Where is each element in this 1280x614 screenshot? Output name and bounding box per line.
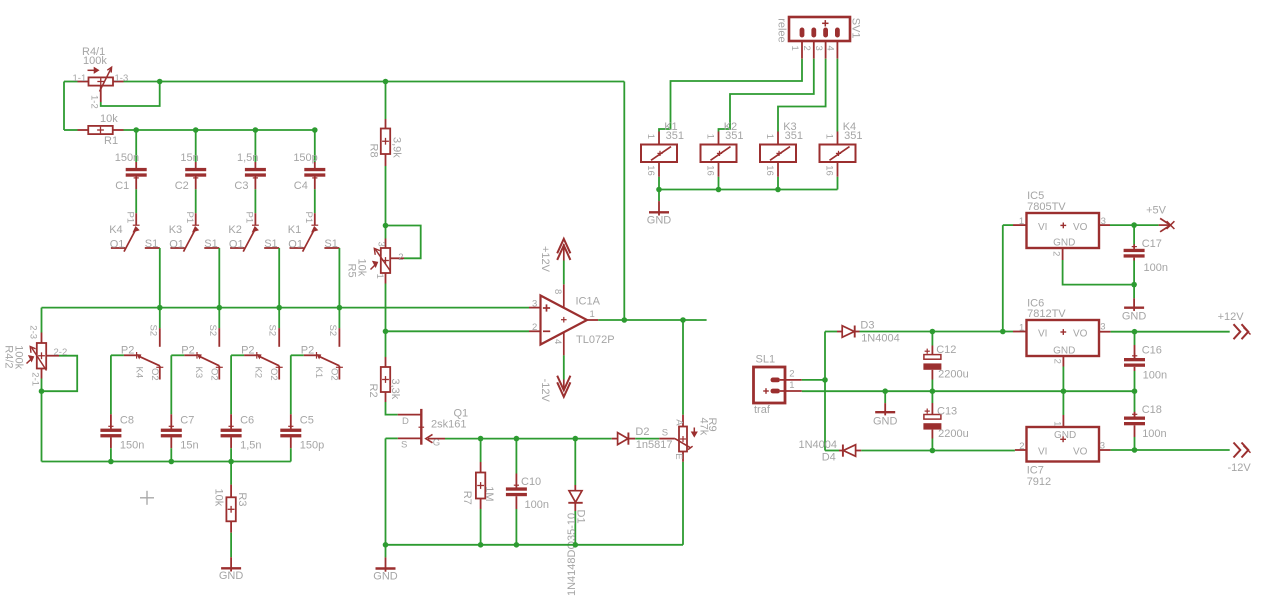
svg-text:2: 2 (532, 322, 537, 333)
svg-text:-12V: -12V (1228, 462, 1252, 474)
svg-text:GND: GND (373, 571, 398, 583)
svg-text:R1: R1 (104, 135, 118, 147)
svg-text:1,5n: 1,5n (237, 152, 258, 164)
svg-text:C2: C2 (175, 180, 189, 192)
svg-text:D: D (402, 416, 409, 427)
svg-text:1: 1 (789, 46, 800, 51)
svg-text:D4: D4 (822, 452, 836, 464)
svg-text:1: 1 (1051, 421, 1062, 426)
svg-text:S: S (662, 428, 668, 439)
svg-text:O2: O2 (149, 368, 160, 381)
svg-text:K1: K1 (288, 224, 301, 236)
svg-text:1: 1 (789, 380, 794, 391)
svg-text:O1: O1 (229, 239, 244, 251)
svg-text:10k: 10k (100, 113, 118, 125)
svg-text:15n: 15n (180, 152, 198, 164)
svg-text:+12V: +12V (1218, 311, 1245, 323)
svg-text:1-2: 1-2 (89, 95, 100, 109)
svg-text:P2: P2 (301, 344, 314, 356)
svg-text:A: A (673, 419, 684, 426)
svg-text:100n: 100n (1144, 262, 1168, 274)
svg-text:K2: K2 (228, 224, 241, 236)
svg-text:VO: VO (1073, 447, 1088, 458)
svg-text:1N4004: 1N4004 (799, 439, 838, 451)
svg-text:R3: R3 (236, 492, 248, 506)
svg-text:1: 1 (1019, 216, 1024, 227)
svg-text:-12V: -12V (539, 379, 551, 403)
svg-text:16: 16 (705, 165, 716, 176)
svg-text:traf: traf (754, 404, 771, 416)
svg-text:1: 1 (824, 134, 835, 139)
svg-text:100k: 100k (83, 55, 107, 67)
svg-text:S1: S1 (145, 238, 158, 250)
svg-text:C12: C12 (936, 344, 956, 356)
svg-text:8: 8 (552, 289, 563, 294)
svg-text:C6: C6 (240, 414, 254, 426)
svg-text:7812TV: 7812TV (1027, 308, 1066, 320)
svg-text:C16: C16 (1142, 344, 1162, 356)
svg-text:relee: relee (776, 18, 788, 42)
svg-text:C4: C4 (294, 180, 308, 192)
svg-text:P1: P1 (125, 212, 136, 224)
svg-text:4: 4 (825, 46, 836, 51)
svg-text:+12V: +12V (539, 246, 551, 273)
svg-text:1,5n: 1,5n (240, 439, 261, 451)
svg-text:7912: 7912 (1027, 476, 1051, 488)
svg-text:P2: P2 (181, 344, 194, 356)
svg-text:IC1A: IC1A (576, 296, 601, 308)
svg-text:S2: S2 (207, 325, 218, 337)
svg-text:P1: P1 (184, 212, 195, 224)
svg-text:K3: K3 (169, 224, 182, 236)
svg-text:GND: GND (219, 570, 244, 582)
svg-text:1-3: 1-3 (115, 73, 129, 84)
svg-text:10k: 10k (356, 259, 368, 277)
svg-text:351: 351 (785, 130, 803, 142)
svg-text:3: 3 (1100, 441, 1105, 452)
svg-text:1: 1 (645, 134, 656, 139)
svg-text:S2: S2 (267, 325, 278, 337)
svg-text:R8: R8 (368, 144, 380, 158)
svg-text:GND: GND (1053, 346, 1075, 357)
svg-text:2: 2 (1050, 251, 1061, 256)
svg-text:VI: VI (1038, 447, 1047, 458)
svg-text:VI: VI (1038, 222, 1047, 233)
svg-text:2: 2 (801, 46, 812, 51)
svg-text:O2: O2 (268, 368, 279, 381)
svg-text:TL072P: TL072P (576, 334, 615, 346)
svg-text:O2: O2 (208, 368, 219, 381)
svg-text:P2: P2 (241, 344, 254, 356)
svg-text:3,9k: 3,9k (390, 137, 402, 158)
svg-text:GND: GND (873, 416, 898, 428)
svg-text:IC7: IC7 (1027, 465, 1044, 477)
svg-text:150n: 150n (115, 152, 139, 164)
svg-text:P1: P1 (244, 212, 255, 224)
svg-text:3: 3 (376, 242, 387, 247)
svg-text:351: 351 (725, 130, 743, 142)
svg-text:G: G (433, 438, 440, 449)
svg-text:C8: C8 (120, 414, 134, 426)
svg-text:S1: S1 (204, 238, 217, 250)
svg-text:3: 3 (532, 298, 537, 309)
svg-text:1M: 1M (483, 486, 495, 501)
svg-text:E: E (673, 453, 684, 459)
svg-text:3,3k: 3,3k (389, 379, 401, 400)
svg-text:351: 351 (844, 130, 862, 142)
svg-text:K3: K3 (193, 367, 204, 379)
svg-text:S1: S1 (264, 238, 277, 250)
svg-text:SL1: SL1 (756, 354, 776, 366)
svg-text:O1: O1 (169, 239, 184, 251)
svg-text:2sk161: 2sk161 (431, 419, 466, 431)
svg-text:Q1: Q1 (454, 408, 469, 420)
svg-text:1: 1 (374, 274, 385, 279)
svg-text:O2: O2 (328, 368, 339, 381)
svg-text:100n: 100n (1143, 369, 1167, 381)
svg-text:C3: C3 (234, 180, 248, 192)
svg-text:3: 3 (813, 46, 824, 51)
svg-text:S: S (401, 439, 407, 450)
svg-text:C7: C7 (180, 414, 194, 426)
svg-text:C18: C18 (1142, 404, 1162, 416)
svg-text:R2: R2 (367, 384, 379, 398)
svg-text:7805TV: 7805TV (1027, 201, 1066, 213)
svg-text:351: 351 (666, 130, 684, 142)
svg-text:C13: C13 (937, 405, 957, 417)
svg-text:GND: GND (647, 215, 672, 227)
svg-text:15n: 15n (180, 439, 198, 451)
svg-text:VI: VI (1038, 328, 1047, 339)
svg-text:3: 3 (1100, 322, 1105, 333)
svg-text:GND: GND (1053, 238, 1075, 249)
svg-text:1N4148DO35-10: 1N4148DO35-10 (566, 513, 578, 596)
svg-text:150p: 150p (293, 152, 317, 164)
svg-text:S1: S1 (324, 238, 337, 250)
svg-text:2200u: 2200u (938, 428, 969, 440)
svg-text:C10: C10 (521, 476, 541, 488)
svg-text:100n: 100n (525, 499, 549, 511)
svg-text:2: 2 (1051, 359, 1062, 364)
svg-text:1: 1 (590, 309, 595, 320)
svg-text:P1: P1 (303, 212, 314, 224)
svg-text:1n5817: 1n5817 (636, 439, 673, 451)
svg-text:2200u: 2200u (938, 368, 969, 380)
svg-text:2: 2 (398, 252, 403, 263)
svg-text:150n: 150n (120, 439, 144, 451)
svg-text:C1: C1 (115, 180, 129, 192)
svg-text:P2: P2 (121, 344, 134, 356)
svg-text:R9: R9 (706, 418, 718, 432)
svg-text:2: 2 (789, 369, 794, 380)
svg-text:K1: K1 (313, 367, 324, 379)
svg-text:2: 2 (1019, 441, 1024, 452)
svg-text:D2: D2 (635, 426, 649, 438)
svg-text:16: 16 (645, 165, 656, 176)
svg-text:GND: GND (1122, 311, 1147, 323)
svg-text:R7: R7 (461, 491, 473, 505)
svg-text:3: 3 (1101, 216, 1106, 227)
svg-text:S2: S2 (327, 325, 338, 337)
svg-text:O1: O1 (288, 239, 303, 251)
svg-text:1: 1 (705, 134, 716, 139)
svg-text:K4: K4 (109, 224, 122, 236)
svg-text:S2: S2 (147, 325, 158, 337)
svg-text:16: 16 (824, 165, 835, 176)
svg-text:VO: VO (1073, 222, 1088, 233)
svg-text:1: 1 (1019, 323, 1024, 334)
svg-text:O1: O1 (110, 239, 125, 251)
svg-text:C17: C17 (1142, 238, 1162, 250)
svg-text:1-1: 1-1 (73, 73, 87, 84)
svg-text:K2: K2 (253, 367, 264, 379)
svg-text:D3: D3 (860, 320, 874, 332)
svg-text:C5: C5 (300, 414, 314, 426)
svg-text:4: 4 (552, 339, 563, 344)
svg-text:150p: 150p (300, 439, 324, 451)
svg-text:16: 16 (764, 165, 775, 176)
svg-text:2-2: 2-2 (54, 347, 68, 358)
svg-text:K4: K4 (133, 367, 144, 379)
svg-text:VO: VO (1073, 328, 1088, 339)
svg-text:10k: 10k (212, 489, 224, 507)
svg-text:1N4004: 1N4004 (861, 332, 900, 344)
svg-text:100n: 100n (1142, 428, 1166, 440)
svg-text:2-1: 2-1 (30, 372, 41, 386)
svg-text:1: 1 (764, 134, 775, 139)
svg-text:2-3: 2-3 (28, 325, 39, 339)
svg-text:SV1: SV1 (849, 18, 861, 39)
svg-text:100k: 100k (13, 345, 25, 369)
svg-text:+5V: +5V (1146, 204, 1167, 216)
